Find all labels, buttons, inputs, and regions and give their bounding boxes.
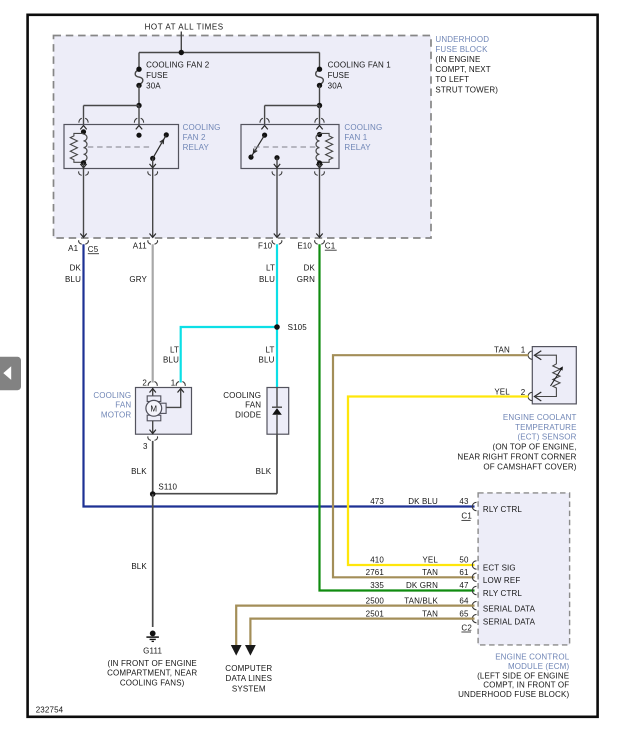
svg-text:ENGINE CONTROL: ENGINE CONTROL (495, 653, 570, 662)
svg-text:FUSE: FUSE (146, 71, 168, 80)
svg-text:M: M (150, 405, 157, 414)
svg-text:30A: 30A (146, 81, 161, 90)
svg-text:BLU: BLU (259, 275, 275, 284)
svg-text:COOLING: COOLING (93, 391, 131, 400)
svg-text:SERIAL DATA: SERIAL DATA (483, 617, 536, 626)
svg-text:NEAR RIGHT FRONT CORNER: NEAR RIGHT FRONT CORNER (457, 453, 576, 462)
svg-text:COOLING: COOLING (223, 391, 261, 400)
svg-text:DK: DK (304, 263, 316, 272)
svg-text:RELAY: RELAY (183, 143, 210, 152)
svg-text:DK GRN: DK GRN (406, 581, 438, 590)
svg-text:65: 65 (459, 609, 469, 618)
svg-text:BLK: BLK (256, 467, 272, 476)
svg-text:GRY: GRY (129, 275, 147, 284)
svg-text:COMPARTMENT, NEAR: COMPARTMENT, NEAR (107, 669, 197, 678)
svg-text:COOLING: COOLING (183, 123, 221, 132)
svg-text:RELAY: RELAY (344, 143, 371, 152)
svg-text:FAN: FAN (245, 401, 261, 410)
svg-text:YEL: YEL (422, 556, 438, 565)
svg-text:C1: C1 (325, 241, 336, 250)
svg-text:TAN: TAN (422, 568, 438, 577)
svg-text:GRN: GRN (297, 275, 315, 284)
svg-text:UNDERHOOD: UNDERHOOD (435, 35, 489, 44)
svg-text:(ON TOP OF ENGINE,: (ON TOP OF ENGINE, (493, 443, 577, 452)
svg-text:(ECT) SENSOR: (ECT) SENSOR (517, 433, 576, 442)
svg-text:TAN: TAN (422, 609, 438, 618)
svg-text:COOLING FANS): COOLING FANS) (120, 678, 185, 687)
svg-text:ECT SIG: ECT SIG (483, 564, 516, 573)
svg-text:TAN: TAN (494, 346, 510, 355)
svg-text:FUSE BLOCK: FUSE BLOCK (435, 45, 488, 54)
svg-text:50: 50 (459, 556, 469, 565)
svg-text:(IN ENGINE: (IN ENGINE (435, 55, 480, 64)
svg-text:TAN/BLK: TAN/BLK (404, 596, 438, 605)
svg-text:(IN FRONT OF ENGINE: (IN FRONT OF ENGINE (108, 659, 197, 668)
svg-text:61: 61 (459, 568, 469, 577)
svg-text:232754: 232754 (36, 706, 64, 715)
svg-text:ENGINE COOLANT: ENGINE COOLANT (503, 413, 577, 422)
svg-text:A1: A1 (68, 244, 78, 253)
svg-text:UNDERHOOD FUSE BLOCK): UNDERHOOD FUSE BLOCK) (458, 690, 569, 699)
svg-text:COMPUTER: COMPUTER (225, 664, 272, 673)
svg-text:COOLING: COOLING (344, 123, 382, 132)
svg-text:LT: LT (266, 263, 275, 272)
svg-text:LT: LT (265, 345, 274, 354)
svg-text:FAN: FAN (115, 401, 131, 410)
svg-text:S110: S110 (158, 482, 177, 491)
svg-text:47: 47 (459, 581, 469, 590)
svg-text:TEMPERATURE: TEMPERATURE (515, 423, 577, 432)
svg-text:2501: 2501 (366, 609, 385, 618)
svg-text:RLY CTRL: RLY CTRL (483, 505, 523, 514)
svg-text:E10: E10 (297, 242, 312, 251)
svg-text:3: 3 (143, 442, 148, 451)
svg-text:43: 43 (459, 497, 469, 506)
svg-text:S105: S105 (288, 323, 308, 332)
svg-text:FAN 2: FAN 2 (183, 133, 206, 142)
svg-text:COOLING FAN 2: COOLING FAN 2 (146, 60, 210, 69)
svg-text:A11: A11 (133, 242, 147, 251)
svg-text:BLU: BLU (65, 275, 81, 284)
svg-text:DIODE: DIODE (235, 411, 261, 420)
svg-text:COMPT, IN FRONT OF: COMPT, IN FRONT OF (483, 681, 569, 690)
svg-text:HOT AT ALL TIMES: HOT AT ALL TIMES (145, 23, 224, 32)
svg-text:473: 473 (370, 497, 384, 506)
svg-text:C1: C1 (461, 512, 472, 521)
svg-text:BLK: BLK (131, 467, 147, 476)
svg-text:1: 1 (171, 378, 176, 387)
svg-text:(LEFT SIDE OF ENGINE: (LEFT SIDE OF ENGINE (477, 671, 569, 680)
svg-text:FUSE: FUSE (328, 71, 350, 80)
svg-text:LOW REF: LOW REF (483, 576, 521, 585)
svg-text:RLY CTRL: RLY CTRL (483, 589, 523, 598)
svg-text:DK BLU: DK BLU (408, 497, 438, 506)
svg-text:DATA LINES: DATA LINES (226, 674, 273, 683)
svg-text:335: 335 (370, 581, 384, 590)
svg-text:1: 1 (521, 346, 526, 355)
svg-text:F10: F10 (258, 242, 273, 251)
svg-text:C2: C2 (461, 623, 472, 632)
svg-text:TO LEFT: TO LEFT (435, 75, 469, 84)
svg-text:STRUT TOWER): STRUT TOWER) (435, 85, 498, 94)
svg-text:FAN 1: FAN 1 (344, 133, 367, 142)
svg-text:OF CAMSHAFT COVER): OF CAMSHAFT COVER) (483, 462, 576, 471)
svg-text:2761: 2761 (366, 568, 385, 577)
svg-text:2500: 2500 (366, 596, 385, 605)
svg-text:G111: G111 (143, 647, 162, 656)
svg-text:410: 410 (370, 556, 384, 565)
svg-text:BLK: BLK (131, 562, 147, 571)
svg-text:MOTOR: MOTOR (101, 411, 131, 420)
svg-text:C5: C5 (88, 245, 99, 254)
svg-text:BLU: BLU (258, 355, 274, 364)
svg-text:COMPT, NEXT: COMPT, NEXT (435, 65, 490, 74)
svg-text:64: 64 (459, 596, 469, 605)
svg-text:DK: DK (70, 263, 82, 272)
svg-text:LT: LT (170, 345, 179, 354)
svg-text:2: 2 (142, 378, 147, 387)
svg-text:SYSTEM: SYSTEM (232, 685, 266, 694)
svg-text:30A: 30A (328, 81, 343, 90)
svg-text:SERIAL DATA: SERIAL DATA (483, 604, 536, 613)
svg-text:MODULE (ECM): MODULE (ECM) (508, 662, 570, 671)
svg-text:BLU: BLU (163, 355, 179, 364)
svg-text:COOLING FAN 1: COOLING FAN 1 (328, 60, 392, 69)
